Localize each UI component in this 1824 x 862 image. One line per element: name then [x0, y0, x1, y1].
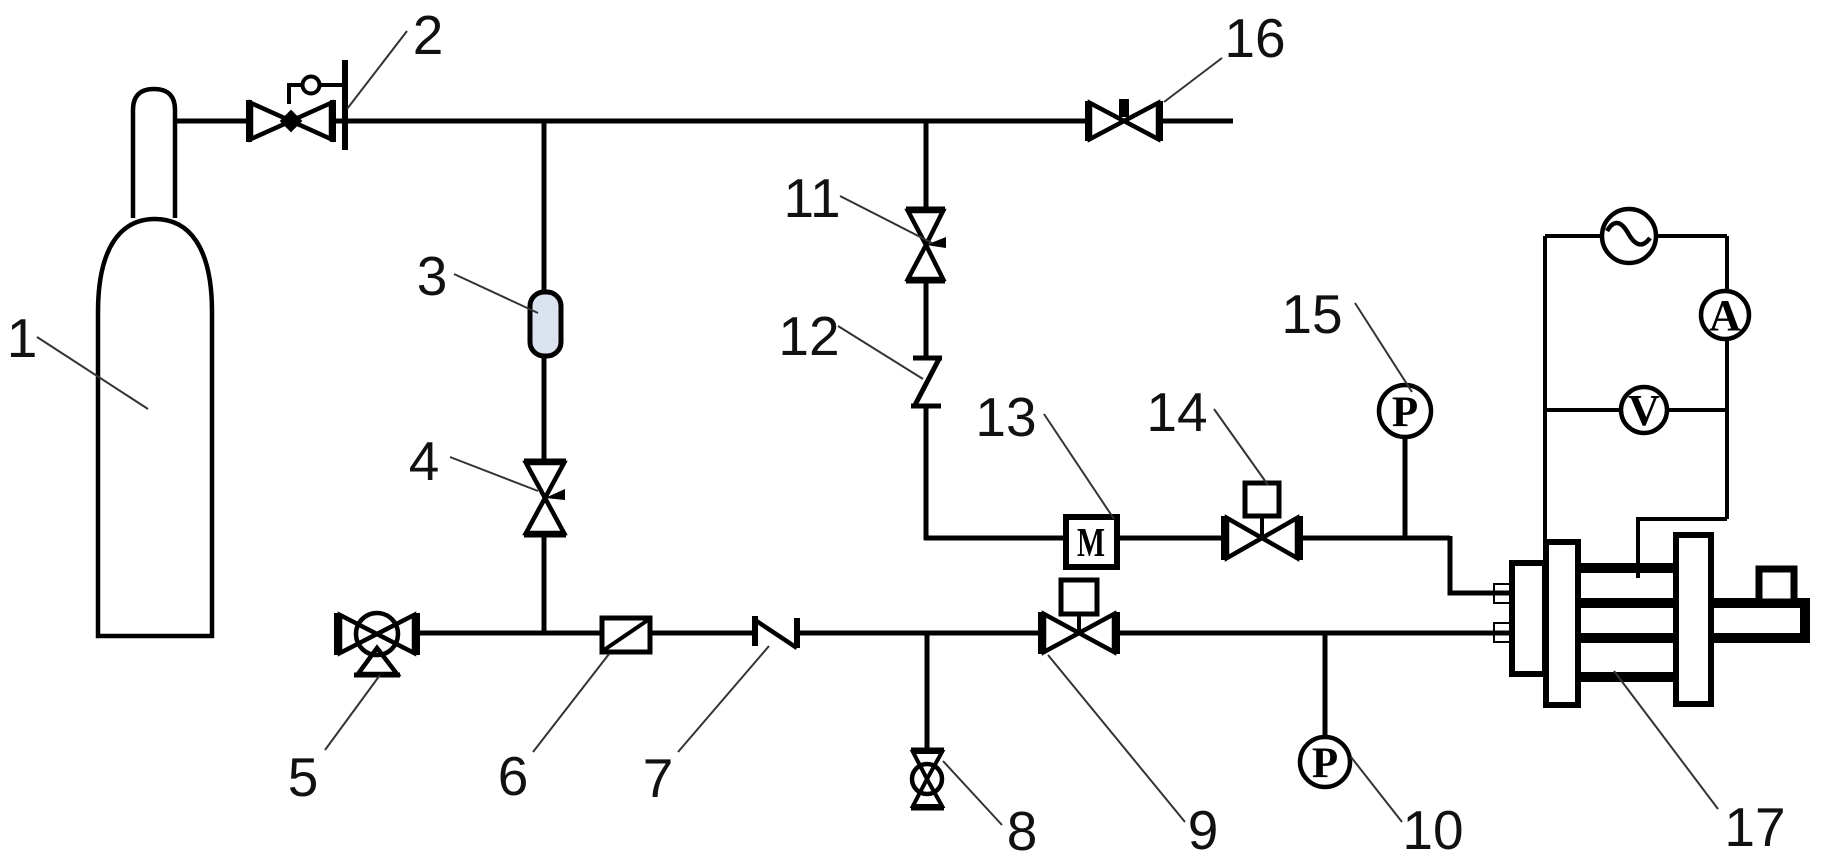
svg-text:13: 13 [975, 386, 1036, 448]
svg-text:A: A [1709, 291, 1741, 340]
svg-text:P: P [1312, 740, 1338, 787]
svg-text:16: 16 [1224, 7, 1285, 69]
svg-text:9: 9 [1188, 799, 1219, 861]
svg-text:6: 6 [498, 745, 529, 807]
svg-text:V: V [1628, 386, 1660, 435]
svg-text:1: 1 [7, 307, 38, 369]
svg-text:12: 12 [778, 305, 839, 367]
svg-text:14: 14 [1146, 381, 1207, 443]
svg-text:11: 11 [783, 167, 840, 229]
svg-text:2: 2 [413, 4, 444, 66]
svg-text:10: 10 [1402, 799, 1463, 861]
svg-text:8: 8 [1007, 800, 1038, 862]
svg-text:P: P [1392, 389, 1418, 436]
svg-text:5: 5 [288, 746, 319, 808]
svg-text:M: M [1077, 519, 1105, 565]
svg-text:17: 17 [1724, 796, 1785, 858]
svg-text:3: 3 [417, 245, 448, 307]
svg-text:15: 15 [1281, 283, 1342, 345]
svg-text:4: 4 [409, 430, 440, 492]
svg-text:7: 7 [643, 747, 674, 809]
